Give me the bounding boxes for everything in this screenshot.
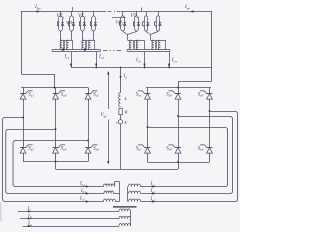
svg-text:Sb2: Sb2 xyxy=(136,146,142,151)
wire phase c right to nest xyxy=(153,112,238,202)
svg-text:Sa3: Sa3 xyxy=(61,92,67,97)
transformer core bar xyxy=(113,206,137,208)
junction dot left bridge negative xyxy=(55,161,57,163)
thyristor a3 xyxy=(53,88,67,103)
svg-text:VT3: VT3 xyxy=(78,14,86,19)
wire phase a to left nest xyxy=(3,118,104,202)
cell 3 output inductors xyxy=(123,32,145,50)
svg-text:Ib1: Ib1 xyxy=(80,189,86,194)
transistor VT3b with antiparallel diode xyxy=(133,11,140,32)
thyristor a2 xyxy=(20,142,34,162)
wire top-right down to collector node xyxy=(211,11,213,68)
EMF source E xyxy=(115,115,127,169)
svg-text:Sb4: Sb4 xyxy=(166,146,172,151)
wire jog segment at cell-chain break xyxy=(112,17,126,19)
transistor VT1a with antiparallel diode xyxy=(57,11,64,32)
junction dot I_ck xyxy=(144,67,146,69)
primary winding star point xyxy=(130,211,132,226)
thyristor a4 xyxy=(53,142,67,162)
junction dot load branch xyxy=(120,67,122,69)
current arrow I_c1 xyxy=(79,196,89,202)
page background tint xyxy=(0,0,240,232)
thyristor b6 xyxy=(198,142,213,163)
wire left feed from top bus to left bridge xyxy=(22,11,55,88)
svg-text:Sb6: Sb6 xyxy=(198,146,204,151)
svg-text:VTn: VTn xyxy=(131,14,139,19)
svg-text:R: R xyxy=(124,110,128,115)
transistor VT1b with antiparallel diode xyxy=(68,11,75,32)
cell 4 output inductors xyxy=(146,32,166,50)
right bridge negative rail xyxy=(148,162,210,164)
junction dot I_cn xyxy=(168,67,170,69)
transistor VT4b with antiparallel diode xyxy=(155,11,162,32)
wire left bridge leg 3 xyxy=(88,102,90,141)
primary winding phase C line and coil xyxy=(23,222,131,228)
svg-text:VT1: VT1 xyxy=(57,14,65,19)
svg-text:Ic2: Ic2 xyxy=(150,197,156,202)
thyristor b5 xyxy=(198,88,213,103)
current arrow I_cn from sliding bus xyxy=(168,52,177,68)
cell 1 output inductors xyxy=(60,32,73,50)
left bridge negative rail xyxy=(23,161,88,163)
current arrow I_ck from sliding bus xyxy=(135,52,146,68)
transistor VT2b with antiparallel diode xyxy=(90,11,97,32)
transistor VT3a with antiparallel diode xyxy=(119,11,126,32)
inductor L xyxy=(119,93,128,107)
secondary winding 2 phase a coil xyxy=(129,184,153,187)
thyristor a1 xyxy=(20,88,34,103)
node phase c left bridge xyxy=(87,140,89,142)
right bridge positive rail xyxy=(146,87,211,89)
secondary winding 1 phase c coil xyxy=(104,199,120,202)
secondary winding 2 star point xyxy=(127,187,129,202)
junction dot right bridge negative xyxy=(177,161,179,163)
svg-text:Sb3: Sb3 xyxy=(166,92,172,97)
current arrow I_Ba on top wire xyxy=(34,4,41,13)
svg-text:E: E xyxy=(123,120,127,125)
svg-text:Id: Id xyxy=(123,74,128,79)
node phase c right bridge xyxy=(209,110,211,112)
wire negative DC link xyxy=(56,162,179,170)
wire right feed down to right bridge xyxy=(178,68,212,88)
current arrow I_a1 xyxy=(79,182,89,188)
wire top DC bus xyxy=(22,11,212,13)
wire phase b to left nest xyxy=(6,130,104,194)
svg-text:Sa6: Sa6 xyxy=(93,146,99,151)
resistor R xyxy=(119,108,128,114)
current arrow I_av on top wire right xyxy=(184,4,193,13)
svg-text:Ic1: Ic1 xyxy=(79,196,85,201)
wire right bridge leg 1 xyxy=(147,102,149,141)
left bridge positive rail xyxy=(21,87,88,89)
svg-text:Vdc: Vdc xyxy=(101,113,108,118)
current arrow I_b2 xyxy=(150,189,156,195)
cell 2 output inductors xyxy=(82,32,95,50)
secondary winding 2 phase c coil xyxy=(129,199,153,202)
secondary winding 2 phase b coil xyxy=(129,191,153,194)
junction dot coil2 to bus xyxy=(84,48,87,51)
node phase b left bridge xyxy=(55,128,57,130)
junction dot left rail feed xyxy=(54,87,56,89)
wire left bridge leg 2 xyxy=(55,102,57,141)
svg-text:Ia2: Ia2 xyxy=(150,182,156,187)
sliding bus bar right segment xyxy=(127,50,170,52)
junction dot I_c2 xyxy=(95,67,97,69)
junction dot right rail feed xyxy=(177,87,179,89)
wire right bridge leg 3 xyxy=(209,102,211,141)
node phase a left bridge xyxy=(22,117,24,119)
svg-text:IB: IB xyxy=(27,214,32,219)
thyristor b3 xyxy=(166,88,181,103)
svg-text:Ia1: Ia1 xyxy=(79,182,85,187)
current arrow I_b1 xyxy=(80,189,89,195)
voltage arrow V_dc xyxy=(101,71,110,164)
wire phase b right to nest xyxy=(153,117,233,194)
wire phase a right to nest xyxy=(148,128,228,187)
primary winding phase A line and coil xyxy=(18,207,131,213)
node phase b right bridge xyxy=(177,115,179,117)
svg-text:Sb5: Sb5 xyxy=(198,92,204,97)
current arrow I_c2 xyxy=(150,197,156,203)
svg-text:Sa1: Sa1 xyxy=(28,92,34,97)
junction dot coil1 to bus xyxy=(62,48,65,51)
svg-text:Ib2: Ib2 xyxy=(150,189,156,194)
thyristor b4 xyxy=(166,142,181,163)
thyristor b1 xyxy=(136,88,151,103)
secondary winding 1 phase a coil xyxy=(104,182,120,187)
primary winding phase B line and coil xyxy=(20,214,131,220)
sliding bus bar left segment xyxy=(52,50,101,52)
svg-text:Sa5: Sa5 xyxy=(93,92,99,97)
wire phase c to left nest xyxy=(13,141,104,187)
svg-text:Sa2: Sa2 xyxy=(28,146,34,151)
transistor VT4a with antiparallel diode xyxy=(143,11,150,32)
transistor VT2a with antiparallel diode xyxy=(79,11,86,32)
wire collector node horizontal xyxy=(71,67,212,69)
wire right bridge leg 2 xyxy=(178,102,180,141)
thyristor a6 xyxy=(85,142,99,162)
secondary winding 1 phase b coil xyxy=(104,191,120,194)
svg-text:IC: IC xyxy=(27,207,33,212)
node phase a right bridge xyxy=(147,126,149,128)
current arrow I_a2 xyxy=(150,182,156,188)
wire top bus dash-dot continuation xyxy=(108,11,121,12)
secondary winding 1 star point xyxy=(119,182,121,202)
thyristor b2 xyxy=(136,142,151,163)
tick mark cell boundary 1 xyxy=(72,7,74,11)
current arrow I_c2 from sliding bus xyxy=(95,52,104,68)
svg-text:Sa4: Sa4 xyxy=(61,146,67,151)
current arrow I_d load branch xyxy=(119,68,127,93)
thyristor a5 xyxy=(85,88,99,103)
sliding bus dash-dot gap xyxy=(103,50,121,51)
current arrow I_c1 from sliding bus xyxy=(64,52,73,68)
svg-text:Sb1: Sb1 xyxy=(136,92,142,97)
wire left bridge leg 1 xyxy=(23,102,25,141)
tick mark cell boundary 2 xyxy=(141,8,143,12)
svg-text:L: L xyxy=(124,96,128,101)
